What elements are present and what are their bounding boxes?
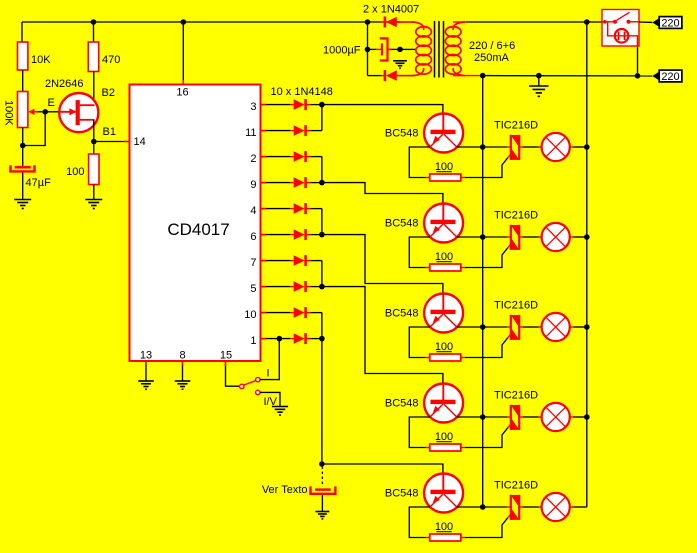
diode D7 1N4148 xyxy=(294,255,305,266)
node 47uF junction xyxy=(20,143,26,149)
transistor Q6 base bar xyxy=(431,490,456,494)
transistor Q3 collector lead xyxy=(444,224,457,237)
svg-text:CD4017: CD4017 xyxy=(167,220,229,239)
svg-text:4: 4 xyxy=(250,205,256,217)
svg-text:I: I xyxy=(267,368,270,380)
node triac rail ch3 xyxy=(480,324,486,330)
node ground tap xyxy=(397,47,403,53)
wire base ch2 xyxy=(322,183,443,204)
svg-text:7: 7 xyxy=(250,257,256,269)
wire rail to triac ch3 xyxy=(483,326,507,328)
wire gate ch3 xyxy=(465,338,508,358)
wire B1 down xyxy=(93,120,95,142)
node triac rail ch1 xyxy=(480,144,486,150)
node ch5 base junction xyxy=(319,461,325,467)
svg-text:10: 10 xyxy=(244,309,256,321)
wire rail to triac ch5 xyxy=(483,506,507,508)
wire gate ch2 xyxy=(465,248,508,268)
svg-text:BC548: BC548 xyxy=(385,128,419,140)
transistor Q5 base bar xyxy=(431,400,456,404)
node pin1 branch xyxy=(277,336,283,342)
transistor Q4 base bar xyxy=(431,310,456,314)
node right rail ch2 xyxy=(584,234,590,240)
wire ground tap stem xyxy=(538,76,540,86)
switch SW1 lever xyxy=(244,381,256,385)
node triac rail ch5 xyxy=(480,504,486,510)
lamp L2 xyxy=(542,223,570,251)
wire D3-D11 join xyxy=(321,105,323,131)
svg-text:47µF: 47µF xyxy=(26,177,52,189)
svg-text:1: 1 xyxy=(250,335,256,347)
svg-text:15: 15 xyxy=(220,350,232,362)
lamp L1 xyxy=(542,133,570,161)
wire rail to triac ch4 xyxy=(483,416,507,418)
svg-text:16: 16 xyxy=(176,87,188,99)
svg-text:220: 220 xyxy=(661,18,679,30)
wire left drop to 10K xyxy=(21,22,23,42)
lamp L3 xyxy=(542,313,570,341)
svg-text:B1: B1 xyxy=(103,126,116,138)
wire 470 to B2 xyxy=(93,72,95,106)
wire collector to rail ch5 xyxy=(457,506,483,508)
wire collector to rail ch2 xyxy=(457,236,483,238)
node cap junction xyxy=(365,47,371,53)
node plug bottom junction xyxy=(635,73,641,79)
svg-text:TIC216D: TIC216D xyxy=(494,479,538,491)
svg-text:14: 14 xyxy=(134,136,146,148)
ground below 47uF xyxy=(14,199,31,201)
diode D5 1N4148 xyxy=(294,281,305,292)
wire lamp to right rail ch5 xyxy=(570,506,574,508)
transistor Q1 base bar xyxy=(76,100,80,125)
op-amp U1 CD4017 body xyxy=(130,85,261,362)
triac TR4 TIC216D xyxy=(510,405,512,430)
wire contact I/V to ground xyxy=(260,392,280,406)
diode D12 1N4007 bottom xyxy=(386,70,397,81)
wire base ch1 xyxy=(322,105,443,114)
resistor R2 470 xyxy=(88,42,98,72)
wire triac to lamp ch1 xyxy=(519,146,523,148)
wire D9 to column xyxy=(311,182,322,184)
svg-text:3: 3 xyxy=(250,101,256,113)
transistor Q4 emitter lead xyxy=(430,314,443,327)
wire D2 to column xyxy=(311,156,322,158)
svg-text:B2: B2 xyxy=(102,87,115,99)
diode D10 1N4148 xyxy=(294,307,305,318)
svg-text:TIC216D: TIC216D xyxy=(494,119,538,131)
transistor Q1 B1 lead xyxy=(80,119,95,121)
wire pin14 xyxy=(94,141,130,143)
svg-text:8: 8 xyxy=(179,350,185,362)
pin 4 wire xyxy=(261,208,291,210)
switch SW1 contact I/V xyxy=(256,390,260,394)
svg-text:2 x 1N4007: 2 x 1N4007 xyxy=(363,4,419,16)
node center tap ground xyxy=(536,73,542,79)
wire triac to lamp ch4 xyxy=(519,416,523,418)
ground below transformer xyxy=(529,85,549,87)
wire D10 down to D1 xyxy=(321,313,323,339)
wire trimmer to ground xyxy=(321,495,323,512)
node B1 junction xyxy=(91,139,97,145)
pin 11 wire xyxy=(261,130,291,132)
node D6 out xyxy=(319,232,325,238)
wire top rail right of transformer xyxy=(466,21,602,23)
transistor Q1 2N2646 body xyxy=(59,93,98,132)
plug box P1 body xyxy=(602,10,639,47)
svg-text:TIC216D: TIC216D xyxy=(494,389,538,401)
svg-text:470: 470 xyxy=(102,54,120,66)
transistor Q5 BC548 body xyxy=(424,384,463,423)
node right rail ch3 xyxy=(584,324,590,330)
potentiometer P1 wiper arrow xyxy=(29,109,35,115)
transistor Q2 base line xyxy=(442,114,444,131)
transistor Q3 base line xyxy=(442,204,444,221)
node triac rail ch2 xyxy=(480,234,486,240)
capacitor C1 47uF xyxy=(15,166,31,169)
wire emitter loop ch5 xyxy=(409,507,430,538)
svg-text:TIC216D: TIC216D xyxy=(494,299,538,311)
wire D2 down to D9 xyxy=(321,157,323,183)
transistor Q5 emitter lead xyxy=(430,404,443,417)
transistor Q4 collector lead xyxy=(444,314,457,327)
node D1 out xyxy=(319,336,325,342)
wire pin8 to ground xyxy=(182,361,184,381)
transistor Q4 BC548 body xyxy=(424,294,463,333)
switch SW1 common contact xyxy=(240,384,244,388)
capacitor C2 1000uF xyxy=(381,43,383,55)
wire top +V rail xyxy=(22,21,412,23)
svg-text:6: 6 xyxy=(250,231,256,243)
triac TR1 TIC216D xyxy=(510,135,512,160)
wire lamp to right rail ch4 xyxy=(570,416,574,418)
wire tap to winding xyxy=(400,48,416,50)
transistor Q5 collector lead xyxy=(444,404,457,417)
transistor Q4 base line xyxy=(442,294,444,311)
wire gate ch1 xyxy=(465,158,508,178)
wire right mains rail xyxy=(586,22,588,507)
wire collector to rail ch3 xyxy=(457,326,483,328)
transistor Q6 emitter lead xyxy=(430,494,443,507)
wire triac rail xyxy=(482,76,484,507)
wire rectifier left drop xyxy=(367,22,369,76)
wire 47uF to ground xyxy=(22,173,24,200)
wire rail to 470 xyxy=(93,22,95,42)
pin 2 wire xyxy=(261,156,291,158)
ground below switch xyxy=(272,406,288,408)
pin 6 wire xyxy=(261,234,291,236)
wire D12 to winding xyxy=(401,75,415,77)
transistor Q2 base bar xyxy=(431,130,456,134)
svg-text:BC548: BC548 xyxy=(385,398,419,410)
wire D4 to column xyxy=(311,208,322,210)
transformer T1 core xyxy=(434,21,436,78)
svg-text:10 x 1N4148: 10 x 1N4148 xyxy=(271,86,333,98)
wire D7 down to D5 xyxy=(321,261,323,287)
wire lamp to right rail ch3 xyxy=(570,326,574,328)
resistor R8 100 xyxy=(426,537,430,539)
node D3 out xyxy=(319,102,325,108)
wire base ch4 xyxy=(322,287,443,384)
svg-text:10K: 10K xyxy=(31,54,51,66)
svg-text:2: 2 xyxy=(250,153,256,165)
node D5 out xyxy=(319,284,325,290)
wire emitter loop ch3 xyxy=(409,327,430,358)
diode D2 1N4148 xyxy=(294,151,305,162)
wire pin15 xyxy=(226,361,240,386)
pin 3 wire xyxy=(261,104,291,106)
ground at 1000uF xyxy=(393,60,407,62)
triac TR5 TIC216D xyxy=(510,495,512,520)
wire gate ch4 xyxy=(465,428,508,448)
wire emitter loop ch1 xyxy=(409,147,430,178)
transistor Q5 base line xyxy=(442,384,444,401)
wire pin1 column down xyxy=(321,339,323,464)
wire gate ch5 xyxy=(465,518,508,538)
wire emitter loop ch4 xyxy=(409,417,430,448)
pin 1 wire xyxy=(261,338,291,340)
wire D1 to column xyxy=(311,338,322,340)
transistor Q3 BC548 body xyxy=(424,204,463,243)
diode D6 1N4148 xyxy=(294,229,305,240)
transistor Q1 emitter arrow xyxy=(59,111,75,113)
transistor Q3 emitter lead xyxy=(430,224,443,237)
pin 7 wire xyxy=(261,260,291,262)
transistor Q6 base line xyxy=(442,474,444,491)
wire base ch5 xyxy=(322,464,443,474)
ground below pin 13 xyxy=(138,380,154,382)
svg-text:220: 220 xyxy=(661,71,679,83)
transistor Q2 BC548 body xyxy=(424,114,463,153)
wire collector to rail ch1 xyxy=(457,146,483,148)
svg-text:BC548: BC548 xyxy=(385,488,419,500)
transistor Q4 emitter arrow xyxy=(433,316,440,323)
wire triac to lamp ch2 xyxy=(519,236,523,238)
wire lamp to right rail ch2 xyxy=(570,236,574,238)
resistor R4 100 xyxy=(426,177,430,179)
wire dashed to trimmer xyxy=(321,467,323,487)
resistor R6 100 xyxy=(426,357,430,359)
pin 9 wire xyxy=(261,182,291,184)
transistor Q6 emitter arrow xyxy=(433,496,440,503)
transistor Q3 base bar xyxy=(431,220,456,224)
triac TR3 TIC216D xyxy=(510,315,512,340)
svg-text:BC548: BC548 xyxy=(385,218,419,230)
svg-text:1000µF: 1000µF xyxy=(323,45,361,57)
node rail to pin16 xyxy=(181,19,187,25)
diode D3 1N4148 xyxy=(294,99,305,110)
wire 10K to pot xyxy=(22,70,24,92)
svg-text:11: 11 xyxy=(245,127,256,139)
pin 10 wire xyxy=(261,312,291,314)
svg-text:220 / 6+6: 220 / 6+6 xyxy=(469,40,515,52)
ground below pin 8 xyxy=(175,380,191,382)
svg-text:9: 9 xyxy=(250,179,256,191)
wire wiper down-left to cap node xyxy=(23,112,46,146)
transistor Q2 emitter lead xyxy=(430,134,443,147)
wire 1000uF to ground node xyxy=(388,48,401,50)
transistor Q5 emitter arrow xyxy=(433,406,440,413)
transistor Q6 BC548 body xyxy=(424,474,463,513)
net label 220 bottom xyxy=(652,72,659,81)
wire to 1000uF xyxy=(368,48,377,50)
capacitor C3 Ver Texto xyxy=(315,488,331,490)
transformer T1 primary winding xyxy=(397,21,415,23)
diode D11 1N4148 xyxy=(294,125,305,136)
wire R3 to ground xyxy=(93,185,95,200)
svg-text:E: E xyxy=(48,97,55,109)
wire emitter loop ch2 xyxy=(409,237,430,268)
svg-text:100: 100 xyxy=(66,166,84,178)
wire D10 to column xyxy=(311,312,322,314)
svg-text:250mA: 250mA xyxy=(474,52,510,64)
wire contact I to pin1 node xyxy=(260,339,279,380)
resistor R1 10K xyxy=(18,42,28,70)
diode D11 1N4007 top xyxy=(386,17,397,28)
svg-text:2N2646: 2N2646 xyxy=(45,78,84,90)
node triac rail top xyxy=(480,73,486,79)
wire D3 to column xyxy=(311,104,322,106)
node wiper junction xyxy=(42,109,48,115)
lamp L5 xyxy=(542,493,570,521)
wire pot bottom to 47uF xyxy=(22,128,24,167)
net label 220 top xyxy=(652,18,659,27)
svg-text:Ver Texto: Ver Texto xyxy=(262,484,308,496)
transistor Q3 emitter arrow xyxy=(433,226,440,233)
wire bottom to D12 xyxy=(368,75,383,77)
wire triac to lamp ch3 xyxy=(519,326,523,328)
svg-text:13: 13 xyxy=(140,350,152,362)
triac TR2 TIC216D xyxy=(510,225,512,250)
wire plug box to 220 top xyxy=(639,21,652,23)
wire D11 to column xyxy=(311,130,322,132)
ground below trimmer xyxy=(315,511,329,513)
pin 5 wire xyxy=(261,286,291,288)
diode D1 1N4148 xyxy=(294,333,305,344)
node D9 out xyxy=(319,180,325,186)
wire plug box down xyxy=(637,48,639,76)
wire D5 to column xyxy=(311,286,322,288)
plug box plug symbol xyxy=(615,29,629,43)
svg-text:BC548: BC548 xyxy=(385,308,419,320)
wire D7 to column xyxy=(311,260,322,262)
ground below R3 xyxy=(85,199,102,201)
wire pin13 to ground xyxy=(145,361,147,381)
wire lamp to right rail ch1 xyxy=(570,146,574,148)
lamp L4 xyxy=(542,403,570,431)
resistor R7 100 xyxy=(426,447,430,449)
wire triac to lamp ch5 xyxy=(519,506,523,508)
resistor R5 100 xyxy=(426,267,430,269)
transistor Q6 collector lead xyxy=(444,494,457,507)
node top rail to 470 xyxy=(91,19,97,25)
transistor Q2 emitter arrow xyxy=(433,136,440,143)
transistor Q2 collector lead xyxy=(444,134,457,147)
node right rail ch4 xyxy=(584,414,590,420)
wire wiper to emitter node xyxy=(45,111,58,113)
wire base ch3 xyxy=(322,235,443,294)
wire rail to triac ch1 xyxy=(483,146,507,148)
wire D6 to column xyxy=(311,234,322,236)
svg-text:5: 5 xyxy=(250,283,256,295)
svg-text:TIC216D: TIC216D xyxy=(494,209,538,221)
transformer T1 secondary winding xyxy=(453,22,465,30)
potentiometer P1 100K body xyxy=(18,92,28,128)
node right rail top xyxy=(584,19,590,25)
transistor Q1 B2 lead xyxy=(80,104,95,106)
resistor R3 100 xyxy=(93,142,95,155)
node rail to rectifier xyxy=(365,19,371,25)
diode D4 1N4148 xyxy=(294,203,305,214)
svg-text:100K: 100K xyxy=(3,100,15,126)
switch SW1 contact I xyxy=(256,377,260,381)
wire secondary bottom run xyxy=(482,75,653,77)
wire D4 down to D6 xyxy=(321,209,323,235)
node triac rail ch4 xyxy=(480,414,486,420)
diode D9 1N4148 xyxy=(294,177,305,188)
plug box switch xyxy=(602,21,613,23)
wire collector to rail ch4 xyxy=(457,416,483,418)
node right rail ch1 xyxy=(584,144,590,150)
wire pin16 xyxy=(182,22,184,85)
wire rail to triac ch2 xyxy=(483,236,507,238)
